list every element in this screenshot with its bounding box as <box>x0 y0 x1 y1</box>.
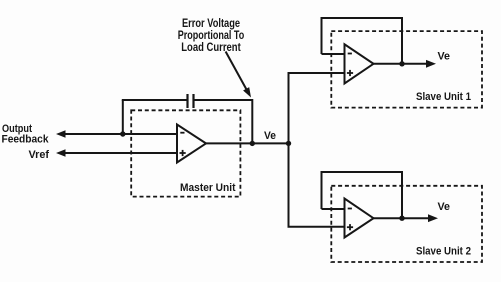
wire: feedback top horizontal (right of capacitor) <box>194 99 253 101</box>
wire: slave1 feedback loop <box>322 18 403 64</box>
label Output Feedback <box>2 123 50 145</box>
wire: slave1 inverting input stub <box>322 53 346 55</box>
wire: feedback top horizontal (left of capacitor) <box>122 99 187 101</box>
wire: slave2 feedback loop <box>322 172 403 218</box>
op-amp U3 (slave 2) <box>345 199 374 238</box>
wire: Vref line (non-inverting input) with left arrowhead <box>56 149 177 157</box>
junction node: feedback/output (error voltage node) <box>250 141 255 146</box>
wire: vertical distribution bus <box>289 73 346 227</box>
capacitor C1 (feedback) <box>188 94 194 108</box>
junction node: slave1 output/feedback <box>399 61 404 66</box>
master unit dashed box <box>131 110 240 196</box>
junction node: bus tap <box>286 141 291 146</box>
op-amp U1 (master) <box>177 125 206 163</box>
svg-text:Vref: Vref <box>29 149 50 161</box>
svg-text:Ve: Ve <box>438 51 451 63</box>
svg-text:Load Current: Load Current <box>181 42 241 54</box>
wire: output feedback line (inverting input) with left arrowhead <box>56 130 177 138</box>
svg-text:Slave Unit 1: Slave Unit 1 <box>416 91 471 103</box>
svg-text:Master Unit: Master Unit <box>180 182 236 194</box>
wire: slave2 inverting input stub <box>322 208 346 210</box>
svg-text:Ve: Ve <box>438 201 451 213</box>
junction node: slave2 output/feedback <box>399 216 404 221</box>
svg-text:Feedback: Feedback <box>2 133 50 145</box>
annotation arrow pointing to error-voltage node <box>226 52 251 98</box>
svg-text:Slave Unit 2: Slave Unit 2 <box>416 246 471 258</box>
annotation text: Error Voltage Proportional To Load Current <box>178 18 245 54</box>
wire: feedback tap vertical riser <box>122 100 124 134</box>
slave unit 2 dashed box <box>331 186 482 262</box>
wire: slave1 output with right arrowhead <box>373 60 436 68</box>
wire: master output to bus <box>205 142 290 144</box>
wire: slave2 output with right arrowhead <box>373 214 438 222</box>
svg-text:Proportional To: Proportional To <box>178 30 245 42</box>
svg-text:Error Voltage: Error Voltage <box>182 18 240 30</box>
junction node: feedback tap on inverting line <box>120 131 125 136</box>
slave unit 1 dashed box <box>331 31 482 108</box>
svg-text:Ve: Ve <box>264 130 276 142</box>
wire: feedback drop to output node <box>251 99 253 143</box>
op-amp U2 (slave 1) <box>345 44 374 83</box>
